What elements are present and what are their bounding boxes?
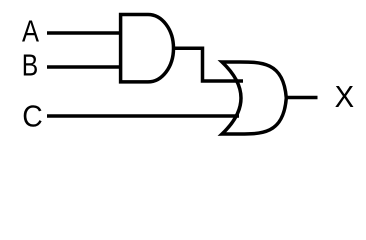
- svg-text:A: A: [22, 14, 39, 49]
- svg-text:B: B: [22, 48, 39, 83]
- svg-text:C: C: [22, 99, 43, 134]
- svg-text:X: X: [335, 79, 355, 114]
